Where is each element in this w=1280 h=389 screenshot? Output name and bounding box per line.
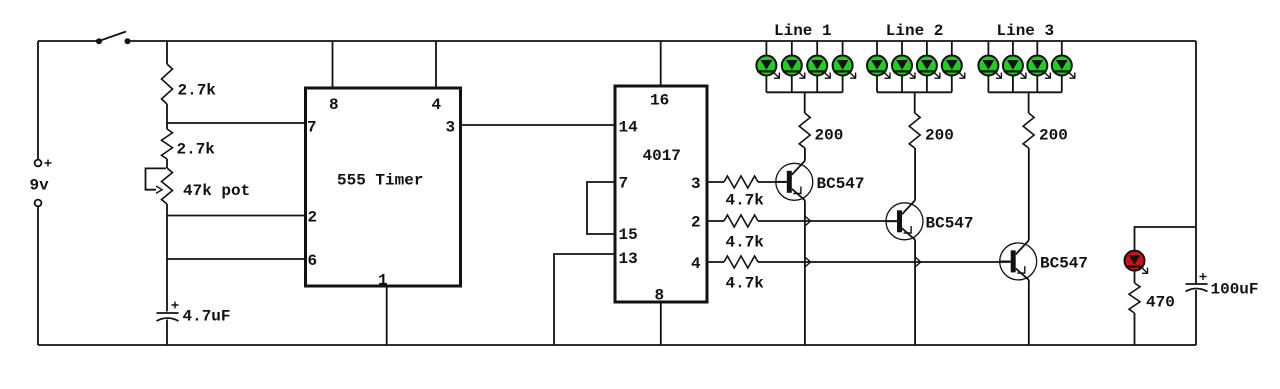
LED D13 green cathode bar	[808, 70, 826, 72]
U1 pin 8 stub	[332, 41, 334, 88]
wire to 555 pin 6	[167, 258, 305, 260]
LED D23 green anode triangle	[921, 60, 933, 70]
wire LED D13 anode stub and cathode drop	[816, 41, 818, 92]
resistor R5 4.7k	[724, 215, 758, 227]
LED D33 green light arrow	[1043, 71, 1051, 79]
wire to 555 pin 7	[167, 122, 305, 124]
svg-text:4.7uF: 4.7uF	[183, 308, 231, 326]
wire red LED to resistor R7	[1134, 271, 1136, 283]
svg-text:4017: 4017	[643, 147, 681, 165]
wire R5 to Q2 base	[758, 220, 897, 222]
wire Line 2 bus to resistor	[914, 92, 916, 113]
resistor 200 ohm Line 3	[1023, 113, 1034, 148]
LED D22 green light arrow	[908, 71, 916, 79]
LED D13 green anode triangle	[811, 60, 823, 70]
transistor Q2 emitter arrowhead	[904, 226, 912, 233]
transistor Q2 collector diagonal	[902, 200, 915, 214]
svg-text:6: 6	[308, 252, 318, 270]
svg-text:Line 2: Line 2	[886, 22, 944, 40]
LED D21 green body	[867, 56, 887, 76]
svg-text:7: 7	[619, 175, 629, 193]
LED D34 green cathode bar	[1053, 70, 1071, 72]
wire pin 13 to ground	[554, 254, 615, 345]
wire LED D14 anode stub and cathode drop	[842, 41, 844, 92]
potentiometer VR1 wiper loop	[146, 168, 167, 189]
LED D24 green anode triangle	[946, 60, 958, 70]
wire node between R2 and pot	[166, 159, 168, 168]
potentiometer VR1 47k resistor body	[162, 168, 173, 204]
svg-text:2.7k: 2.7k	[177, 141, 216, 159]
junction arrow on pin2 wire at Q1 emitter crossing	[806, 217, 811, 226]
wire Line 1 cathode bus	[766, 91, 842, 93]
wire 555 pin 3 to 4017 pin 14	[461, 124, 616, 126]
svg-text:4: 4	[432, 96, 442, 114]
LED D31 green light arrow	[994, 71, 1002, 79]
transistor Q2 base lead	[886, 220, 897, 222]
LED D23 green light arrow	[932, 71, 940, 79]
LED D23 green body	[917, 56, 937, 76]
svg-text:9v: 9v	[30, 177, 50, 195]
wire 4017 pin 4 to R6	[707, 261, 724, 263]
LED D32 green light arrow	[1018, 71, 1026, 79]
svg-text:4.7k: 4.7k	[726, 192, 765, 210]
svg-text:4.7k: 4.7k	[726, 275, 765, 293]
LED D12 green body	[782, 56, 802, 76]
transistor Q2 BC547 body circle	[886, 203, 923, 240]
LED D14 green cathode bar	[834, 70, 852, 72]
svg-text:4.7k: 4.7k	[726, 234, 765, 252]
svg-text:2: 2	[691, 214, 701, 232]
LED D13 red cathode bar	[1126, 265, 1144, 267]
resistor 200 ohm Line 1	[799, 113, 810, 148]
svg-text:16: 16	[650, 92, 669, 110]
transistor Q2 emitter lead to ground	[914, 240, 916, 345]
svg-text:100uF: 100uF	[1211, 281, 1259, 299]
transistor Q3 collector lead	[1028, 148, 1030, 240]
wire loop pin 7 to pin 15	[587, 182, 615, 234]
LED D13 red light arrow	[1140, 266, 1148, 274]
svg-text:3: 3	[446, 119, 456, 137]
svg-text:3: 3	[691, 175, 701, 193]
transistor Q1 collector diagonal	[792, 161, 805, 175]
svg-text:BC547: BC547	[817, 175, 865, 193]
resistor R1 2.7k	[162, 64, 173, 104]
LED D31 green anode triangle	[983, 60, 995, 70]
wire LED D24 anode stub and cathode drop	[951, 41, 953, 92]
U1 pin 1 stub to ground	[386, 286, 388, 345]
capacitor C2 100uF top plate	[1186, 283, 1208, 285]
wire C2 to ground rail	[1195, 290, 1197, 345]
wire top +9V rail left segment	[38, 40, 97, 42]
svg-text:4: 4	[691, 255, 701, 273]
wire LED D32 anode stub and cathode drop	[1012, 41, 1014, 92]
transistor Q1 emitter lead to ground	[804, 200, 806, 345]
wire right rail	[1195, 41, 1197, 284]
transistor Q3 emitter arrowhead	[1017, 266, 1025, 273]
LED D13 green body	[807, 56, 827, 76]
wire LED D34 anode stub and cathode drop	[1061, 41, 1063, 92]
potentiometer VR1 wiper arrow	[156, 186, 162, 193]
wire Line 3 cathode bus	[988, 91, 1061, 93]
svg-text:8: 8	[329, 96, 339, 114]
LED D13 red body	[1125, 251, 1145, 271]
resistor R2 2.7k	[162, 129, 173, 159]
svg-text:470: 470	[1146, 294, 1175, 312]
LED D14 green body	[833, 56, 853, 76]
wire 4017 pin 2 to R5	[707, 220, 724, 222]
IC U1 555 Timer body	[306, 88, 461, 286]
LED D12 green cathode bar	[783, 70, 801, 72]
svg-text:2: 2	[308, 209, 318, 227]
svg-text:2.7k: 2.7k	[178, 82, 217, 100]
battery B1 plus sign	[45, 160, 52, 167]
transistor Q1 emitter arrowhead	[793, 187, 801, 194]
LED D23 green cathode bar	[918, 70, 936, 72]
LED D11 green anode triangle	[761, 60, 773, 70]
LED D21 green anode triangle	[871, 60, 883, 70]
resistor R7 470	[1129, 283, 1140, 313]
transistor Q1 collector lead	[804, 148, 806, 161]
transistor Q3 BC547 body circle	[1000, 243, 1037, 280]
LED D24 green cathode bar	[943, 70, 961, 72]
transistor Q1 base lead	[776, 181, 787, 183]
svg-text:14: 14	[619, 119, 639, 137]
resistor 200 ohm Line 2	[909, 113, 920, 148]
LED D22 green body	[892, 56, 912, 76]
wire LED D33 anode stub and cathode drop	[1036, 41, 1038, 92]
battery B1 negative lead	[37, 207, 39, 346]
wire R7 to ground rail	[1134, 313, 1136, 345]
svg-text:Line 1: Line 1	[774, 22, 832, 40]
LED D12 green light arrow	[797, 71, 805, 79]
wire LED D23 anode stub and cathode drop	[926, 41, 928, 92]
LED D22 green anode triangle	[896, 60, 908, 70]
LED D22 green cathode bar	[893, 70, 911, 72]
transistor Q1 emitter diagonal	[792, 189, 805, 201]
wire LED D11 anode stub and cathode drop	[765, 41, 767, 92]
U1 pin 4 stub	[435, 41, 437, 88]
wire to 555 pin 2	[167, 215, 305, 217]
wire R6 to Q3 base	[758, 261, 1011, 263]
capacitor C2 100uF curved plate	[1186, 289, 1208, 292]
LED D32 green anode triangle	[1007, 60, 1019, 70]
wire LED D22 anode stub and cathode drop	[901, 41, 903, 92]
svg-text:BC547: BC547	[1040, 255, 1088, 273]
resistor R6 4.7k	[724, 256, 758, 268]
switch S1	[96, 32, 131, 45]
wire Line 2 cathode bus	[877, 91, 952, 93]
capacitor C2 plus sign	[1200, 273, 1207, 280]
transistor Q1 BC547 body circle	[776, 163, 813, 200]
LED D34 green body	[1052, 56, 1072, 76]
transistor Q2 collector lead	[914, 148, 916, 200]
LED D14 green light arrow	[848, 71, 856, 79]
LED D21 green cathode bar	[868, 70, 886, 72]
capacitor C1 4.7uF top plate	[157, 312, 179, 314]
IC U2 4017 body	[615, 86, 707, 302]
wire 4017 pin 3 to R4	[707, 181, 724, 183]
transistor Q3 emitter lead to ground	[1028, 280, 1030, 345]
LED D11 green light arrow	[772, 71, 780, 79]
transistor Q3 collector diagonal	[1016, 240, 1029, 254]
wire C1 to ground rail	[166, 320, 168, 346]
svg-text:Line 3: Line 3	[997, 22, 1055, 40]
transistor Q2 emitter diagonal	[902, 228, 915, 240]
LED D24 green body	[942, 56, 962, 76]
svg-text:7: 7	[307, 119, 317, 137]
LED D32 green body	[1003, 56, 1023, 76]
LED D33 green body	[1027, 56, 1047, 76]
transistor Q3 emitter diagonal	[1016, 268, 1029, 280]
battery B1 negative terminal	[35, 200, 42, 207]
svg-text:15: 15	[619, 226, 638, 244]
wire Line 3 bus to resistor	[1028, 92, 1030, 113]
wire Line 1 bus to resistor	[804, 92, 806, 113]
LED D32 green cathode bar	[1004, 70, 1022, 72]
LED D11 green cathode bar	[757, 70, 775, 72]
wire node between R1 and R2	[166, 104, 168, 129]
U2 pin 16 stub	[660, 41, 662, 86]
LED D34 green light arrow	[1067, 71, 1075, 79]
LED D11 green body	[756, 56, 776, 76]
LED D21 green light arrow	[883, 71, 891, 79]
transistor Q3 base lead	[1000, 260, 1011, 262]
LED D31 green cathode bar	[979, 70, 997, 72]
svg-text:47k pot: 47k pot	[183, 182, 250, 200]
wire top +9V rail	[130, 40, 1196, 42]
LED D12 green anode triangle	[786, 60, 798, 70]
svg-text:200: 200	[1039, 127, 1068, 145]
battery B1 positive terminal	[35, 160, 42, 167]
wire left resistor column top	[166, 41, 168, 64]
wire LED D21 anode stub and cathode drop	[876, 41, 878, 92]
LED D14 green anode triangle	[837, 60, 849, 70]
LED D33 green anode triangle	[1032, 60, 1044, 70]
capacitor C1 4.7uF curved plate	[157, 318, 179, 321]
U2 pin 8 stub to ground	[660, 302, 662, 345]
wire LED D12 anode stub and cathode drop	[791, 41, 793, 92]
capacitor C1 plus sign	[172, 302, 179, 309]
wire node below pot	[166, 204, 168, 312]
junction arrow on pin4 wire at Q2 emitter crossing	[916, 258, 921, 267]
svg-text:200: 200	[925, 127, 954, 145]
junction arrow on pin4 wire at Q1 emitter crossing	[806, 258, 811, 267]
LED D33 green cathode bar	[1028, 70, 1046, 72]
LED D34 green anode triangle	[1056, 60, 1068, 70]
resistor R4 4.7k	[724, 176, 758, 188]
svg-text:13: 13	[619, 250, 638, 268]
wire LED D31 anode stub and cathode drop	[987, 41, 989, 92]
svg-text:200: 200	[815, 127, 844, 145]
svg-text:555 Timer: 555 Timer	[337, 172, 423, 190]
LED D13 red anode triangle	[1129, 255, 1141, 265]
transistor Q1 base bar	[787, 171, 792, 193]
wire red LED branch top to right rail	[1135, 227, 1197, 250]
LED D31 green body	[978, 56, 998, 76]
transistor Q2 base bar	[897, 210, 902, 232]
LED D13 green light arrow	[823, 71, 831, 79]
wire bottom ground rail	[38, 344, 1196, 346]
transistor Q3 base bar	[1011, 250, 1016, 272]
wire R4 to Q1 base	[758, 181, 787, 183]
svg-text:8: 8	[655, 287, 665, 305]
battery B1 9v positive lead	[37, 41, 39, 160]
LED D24 green light arrow	[957, 71, 965, 79]
svg-text:BC547: BC547	[926, 215, 974, 233]
